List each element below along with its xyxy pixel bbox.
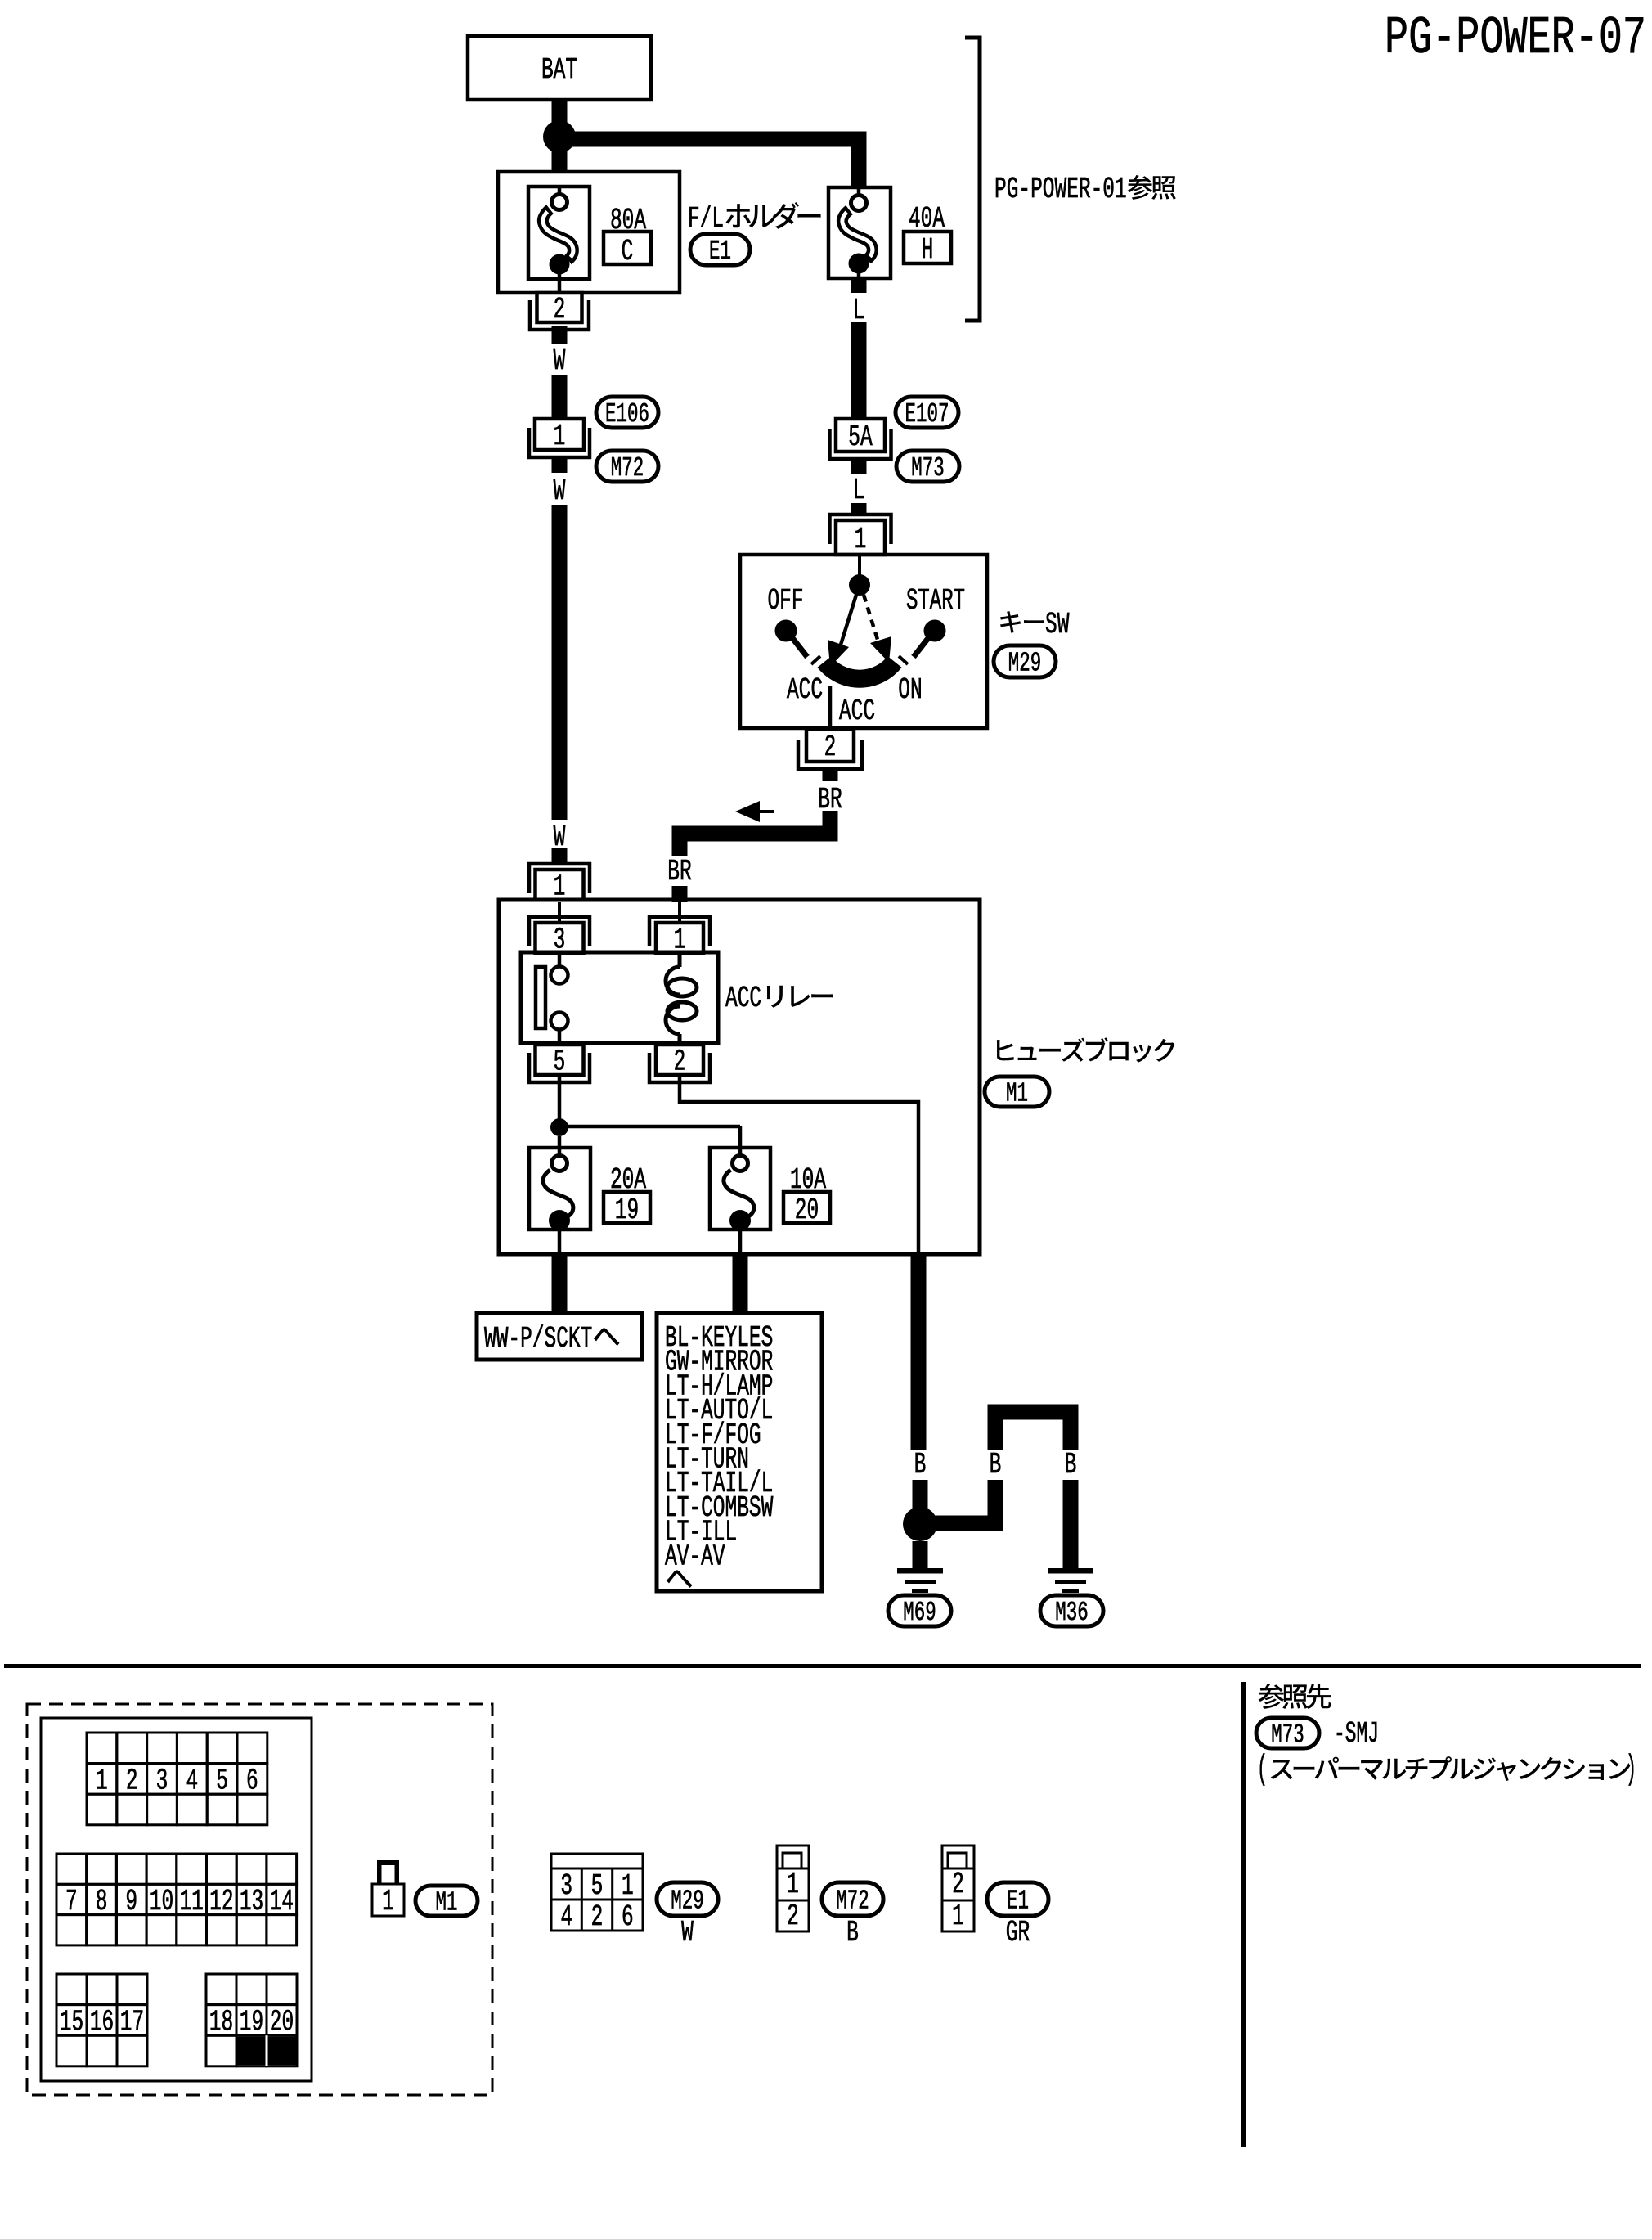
svg-text:WW-P/SCKT: WW-P/SCKT [484, 1322, 592, 1356]
svg-text:4: 4 [560, 1900, 572, 1934]
svg-text:BR: BR [667, 855, 691, 888]
svg-text:3: 3 [560, 1869, 572, 1903]
svg-text:(: ( [1257, 1750, 1268, 1789]
svg-text:2: 2 [591, 1900, 604, 1934]
svg-text:F/L: F/L [688, 202, 724, 236]
svg-text:W: W [681, 1916, 694, 1949]
svg-text:13: 13 [240, 1885, 263, 1918]
svg-text:PG-POWER-07: PG-POWER-07 [1385, 8, 1646, 69]
svg-text:H: H [922, 233, 934, 267]
svg-text:17: 17 [120, 2005, 144, 2039]
svg-text:): ) [1626, 1750, 1636, 1789]
svg-text:4: 4 [186, 1764, 198, 1797]
svg-text:E106: E106 [605, 399, 649, 429]
svg-text:M1: M1 [1006, 1079, 1028, 1109]
svg-text:START: START [906, 584, 965, 618]
svg-text:19: 19 [615, 1194, 639, 1227]
svg-text:M72: M72 [836, 1886, 869, 1917]
svg-text:ACC: ACC [787, 673, 823, 707]
svg-text:1: 1 [952, 1900, 964, 1933]
svg-text:M29: M29 [671, 1886, 703, 1917]
svg-text:20: 20 [270, 2005, 294, 2039]
svg-text:C: C [622, 235, 634, 268]
svg-text:2: 2 [952, 1868, 964, 1901]
svg-text:2: 2 [787, 1900, 799, 1933]
svg-text:PG-POWER-01: PG-POWER-01 [994, 173, 1127, 206]
svg-text:5A: 5A [848, 420, 873, 454]
svg-text:5: 5 [554, 1045, 566, 1079]
svg-text:BAT: BAT [541, 53, 577, 87]
svg-text:GR: GR [1006, 1916, 1030, 1949]
svg-text:M29: M29 [1008, 649, 1041, 679]
svg-text:1: 1 [554, 420, 566, 453]
svg-text:-SMJ: -SMJ [1334, 1717, 1379, 1751]
svg-text:E1: E1 [1007, 1886, 1029, 1917]
svg-text:3: 3 [156, 1764, 168, 1797]
svg-text:10: 10 [150, 1885, 173, 1918]
svg-text:M69: M69 [903, 1598, 936, 1628]
svg-text:OFF: OFF [767, 584, 803, 618]
svg-text:W: W [554, 344, 566, 378]
svg-text:L: L [853, 474, 865, 507]
svg-text:15: 15 [60, 2005, 83, 2039]
svg-text:B: B [846, 1916, 859, 1949]
svg-text:ACC: ACC [839, 695, 875, 728]
svg-text:1: 1 [96, 1764, 108, 1797]
svg-text:M73: M73 [1271, 1720, 1304, 1751]
svg-text:19: 19 [240, 2005, 263, 2039]
svg-text:1: 1 [787, 1868, 799, 1901]
svg-text:2: 2 [824, 731, 837, 764]
svg-text:W: W [554, 474, 566, 508]
svg-text:1: 1 [382, 1885, 394, 1918]
svg-text:E107: E107 [905, 399, 949, 429]
svg-text:14: 14 [270, 1885, 294, 1918]
svg-text:8: 8 [96, 1885, 108, 1918]
svg-text:5: 5 [216, 1764, 228, 1797]
svg-text:E1: E1 [709, 236, 731, 267]
svg-text:AV-AV: AV-AV [665, 1540, 725, 1573]
svg-text:B: B [1065, 1448, 1077, 1481]
svg-text:M72: M72 [611, 453, 644, 483]
svg-text:7: 7 [65, 1885, 78, 1918]
svg-text:ON: ON [898, 673, 922, 707]
svg-text:L: L [853, 294, 865, 327]
svg-text:6: 6 [246, 1764, 258, 1797]
svg-text:B: B [990, 1448, 1002, 1481]
svg-text:M1: M1 [436, 1888, 458, 1918]
svg-text:M36: M36 [1055, 1598, 1088, 1628]
svg-text:6: 6 [622, 1900, 634, 1934]
svg-text:1: 1 [855, 523, 867, 556]
svg-text:2: 2 [554, 293, 566, 326]
svg-text:11: 11 [179, 1885, 203, 1918]
svg-text:20: 20 [795, 1194, 819, 1227]
svg-text:1: 1 [622, 1869, 634, 1903]
svg-text:B: B [914, 1448, 927, 1481]
svg-text:9: 9 [125, 1885, 137, 1918]
svg-text:M73: M73 [911, 453, 944, 483]
svg-text:2: 2 [674, 1045, 686, 1079]
svg-text:18: 18 [209, 2005, 233, 2039]
svg-text:ACC: ACC [725, 982, 761, 1015]
svg-text:5: 5 [591, 1869, 604, 1903]
svg-text:12: 12 [209, 1885, 233, 1918]
svg-text:SW: SW [1045, 608, 1070, 641]
svg-text:2: 2 [126, 1764, 138, 1797]
svg-text:16: 16 [90, 2005, 114, 2039]
